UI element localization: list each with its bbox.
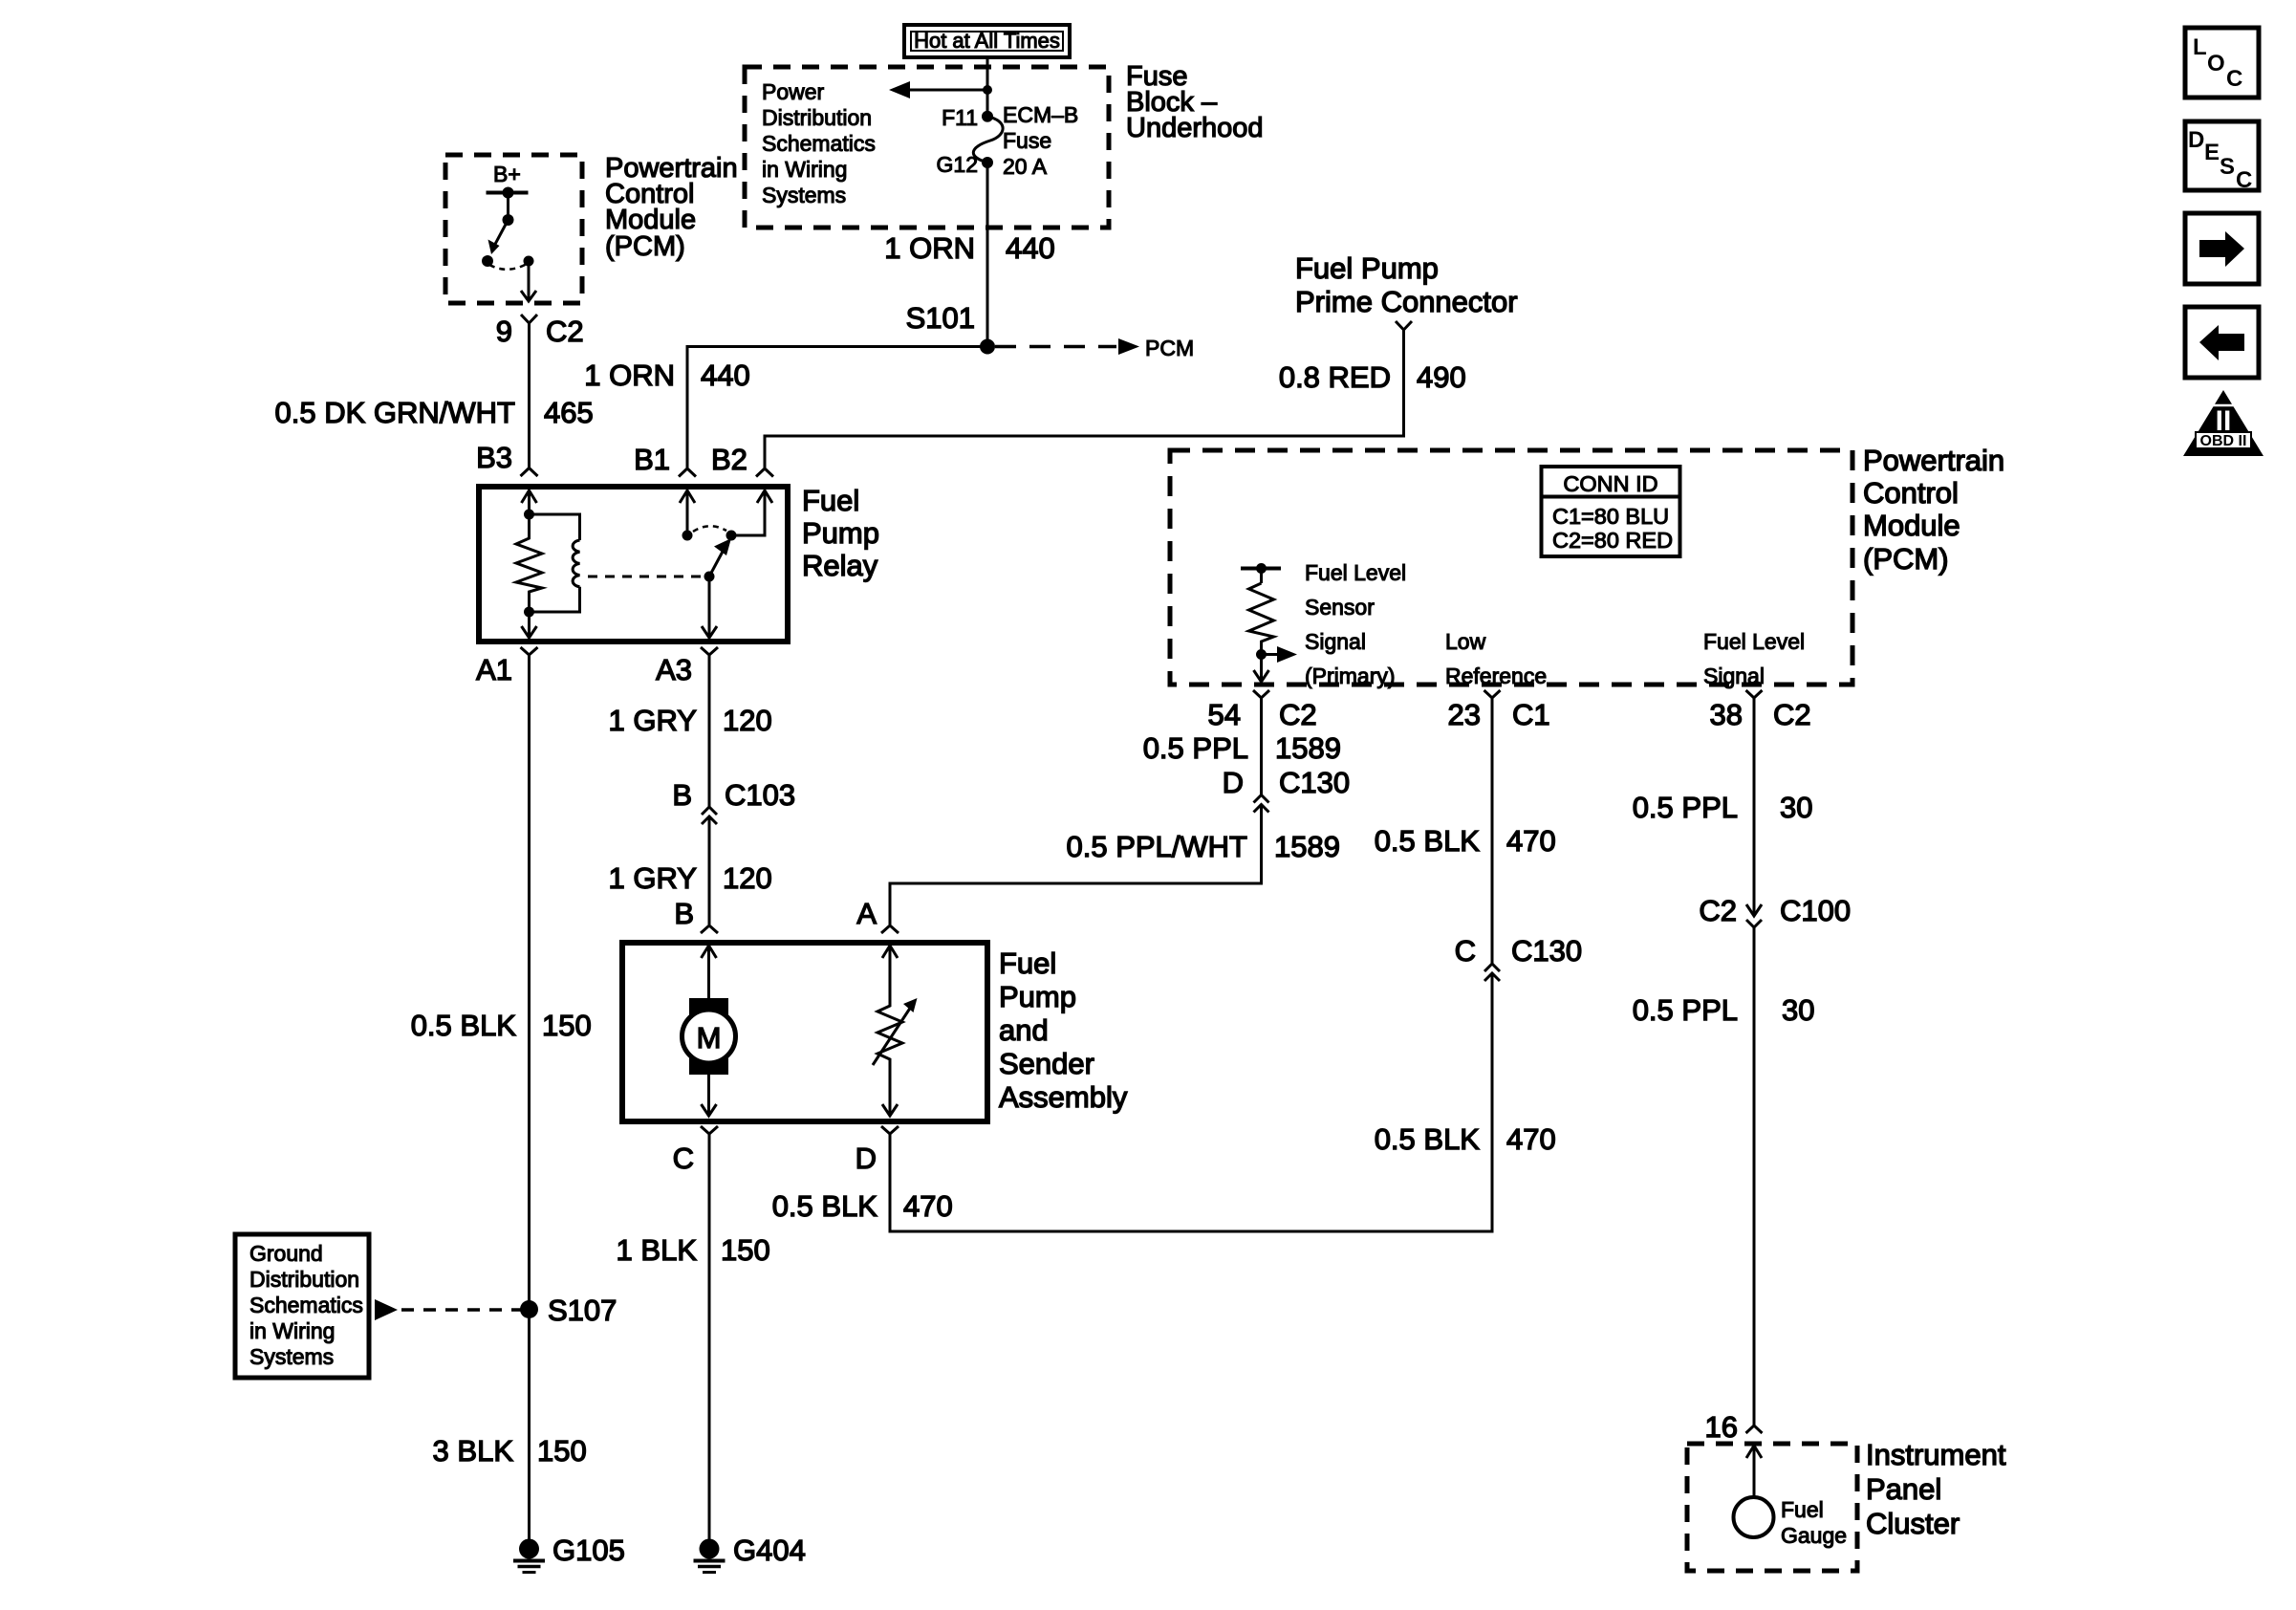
- junction dot coil top: [524, 510, 534, 520]
- label 0.5 BLK 470 (lower): [1375, 1122, 1556, 1156]
- pin label B2: [711, 443, 747, 476]
- wire 30 from PCM: [1753, 698, 1756, 915]
- junction dot coil bottom: [524, 607, 534, 618]
- Powertrain Control Module (PCM) dashed box (top-left): [445, 155, 582, 303]
- junction dot S107: [520, 1300, 538, 1318]
- svg-text:0.5 BLK: 0.5 BLK: [772, 1189, 878, 1223]
- label 1 ORN 440 (fuse branch): [884, 231, 1054, 265]
- svg-text:S107: S107: [548, 1294, 617, 1327]
- relay A3 leg with down arrow: [702, 577, 717, 638]
- pin label B (fuel pump): [674, 897, 694, 930]
- pin label A1: [476, 653, 512, 686]
- svg-text:465: 465: [544, 396, 594, 429]
- junction dot at arrow branch: [983, 85, 992, 95]
- svg-text:B: B: [674, 897, 694, 930]
- svg-text:in Wiring: in Wiring: [249, 1318, 335, 1343]
- icon LOC: [2185, 28, 2259, 98]
- wire A3 to C103: [708, 655, 711, 807]
- pin label B1: [634, 443, 670, 476]
- svg-text:(PCM): (PCM): [605, 231, 685, 262]
- wire C103 to fuel pump B: [708, 816, 711, 925]
- Ground Distribution Schematics box: [235, 1234, 369, 1378]
- arrow from ground box: [375, 1299, 398, 1320]
- svg-text:1 ORN: 1 ORN: [884, 231, 975, 265]
- dashed wire to S107: [401, 1308, 521, 1312]
- svg-text:150: 150: [721, 1233, 770, 1267]
- svg-text:0.8 RED: 0.8 RED: [1279, 360, 1391, 394]
- svg-text:0.5 BLK: 0.5 BLK: [1375, 824, 1481, 858]
- connector 54 C2 below PCM: [1208, 690, 1317, 731]
- svg-text:30: 30: [1780, 791, 1812, 824]
- svg-text:ECM–B: ECM–B: [1003, 102, 1078, 127]
- wire A1 to S107: [528, 655, 531, 1539]
- label Fuel Level Sensor Signal (Primary): [1305, 560, 1406, 688]
- icon forward arrow: [2185, 213, 2259, 284]
- wire arrow to power distribution (left arrow): [889, 81, 987, 98]
- junction dot F11: [982, 111, 993, 122]
- svg-text:D: D: [1223, 766, 1244, 799]
- svg-text:30: 30: [1782, 993, 1814, 1027]
- svg-text:Fuel Level: Fuel Level: [1305, 560, 1406, 585]
- pin label A (fuel pump sender): [856, 897, 877, 930]
- label Powertrain Control Module (PCM): [605, 153, 738, 262]
- label 0.5 PPL 1589: [1143, 731, 1341, 765]
- motor M (fuel pump): [682, 998, 736, 1075]
- label Fuel Pump and Sender Assembly: [999, 946, 1128, 1114]
- connector B2 into relay: [756, 468, 773, 477]
- svg-text:Pump: Pump: [999, 980, 1076, 1013]
- svg-text:C1: C1: [1512, 698, 1550, 731]
- wire 465 segment: [528, 323, 531, 468]
- svg-text:54: 54: [1208, 698, 1241, 731]
- ground G105: [513, 1539, 545, 1573]
- svg-text:Distribution: Distribution: [762, 105, 872, 130]
- connector B into fuel pump: [701, 925, 718, 933]
- pin label C: [673, 1142, 694, 1175]
- svg-text:Relay: Relay: [802, 549, 878, 582]
- svg-text:C100: C100: [1780, 894, 1851, 927]
- connector 9 C2 below PCM: [496, 315, 584, 348]
- svg-text:O: O: [2207, 51, 2225, 76]
- svg-text:Low: Low: [1445, 629, 1486, 654]
- connector B C103 (in-line): [672, 778, 795, 824]
- svg-text:Schematics: Schematics: [762, 131, 876, 156]
- svg-text:C2: C2: [1773, 698, 1811, 731]
- svg-text:M: M: [697, 1021, 722, 1055]
- label 1 BLK 150: [617, 1233, 770, 1267]
- Powertrain Control Module PCM dashed box (right): [1170, 450, 1852, 685]
- label 0.5 BLK 470 (below D): [772, 1189, 953, 1223]
- svg-text:3 BLK: 3 BLK: [433, 1434, 514, 1468]
- svg-text:C130: C130: [1279, 766, 1350, 799]
- svg-text:B: B: [672, 778, 692, 812]
- svg-text:A3: A3: [656, 653, 692, 686]
- svg-text:38: 38: [1710, 698, 1743, 731]
- motor lead to C with down arrow: [702, 1075, 717, 1116]
- svg-text:C: C: [2236, 167, 2252, 193]
- wire PCM output stem with down arrow: [521, 261, 536, 301]
- sender feed (arrow up): [882, 946, 898, 1002]
- wire D to C130 run: [890, 973, 1492, 1231]
- label 0.5 DK GRN/WHT 465: [275, 396, 594, 429]
- wire C130 to fuel pump A: [890, 805, 1262, 925]
- Hot at All Times box: [904, 25, 1070, 57]
- pin label B3: [476, 441, 512, 474]
- svg-text:Fuel Level: Fuel Level: [1703, 629, 1805, 654]
- svg-text:0.5 PPL: 0.5 PPL: [1143, 731, 1248, 765]
- svg-text:Control: Control: [1863, 476, 1959, 510]
- svg-text:470: 470: [1506, 1122, 1556, 1156]
- svg-text:(Primary): (Primary): [1305, 664, 1396, 688]
- svg-text:Panel: Panel: [1866, 1472, 1941, 1506]
- label Power Distribution Schematics in Wiring Systems: [762, 79, 876, 207]
- svg-text:B1: B1: [634, 443, 670, 476]
- svg-text:Assembly: Assembly: [999, 1080, 1128, 1114]
- svg-text:C: C: [2226, 66, 2242, 92]
- svg-text:Cluster: Cluster: [1866, 1507, 1960, 1540]
- wire C to G404: [708, 1134, 711, 1539]
- svg-text:0.5 PPL: 0.5 PPL: [1633, 791, 1738, 824]
- fuse ECM-B (S-curve element): [973, 117, 1003, 163]
- relay B1 common terminal (arrow up): [680, 490, 695, 535]
- svg-text:0.5 PPL: 0.5 PPL: [1633, 993, 1738, 1027]
- svg-text:470: 470: [1506, 824, 1556, 858]
- svg-text:0.5 BLK: 0.5 BLK: [411, 1009, 517, 1042]
- fuel level sensor signal pull-up (internal): [1241, 563, 1297, 682]
- connector Fuel Pump Prime (Y terminal): [1396, 321, 1412, 330]
- svg-text:Fuel: Fuel: [1781, 1497, 1824, 1522]
- svg-text:B+: B+: [493, 162, 521, 186]
- label Ground Distribution Schematics in Wiring Systems: [249, 1241, 363, 1369]
- label 1 GRY 120 (upper): [609, 704, 772, 737]
- pin label D: [856, 1142, 877, 1175]
- wire S101 branch to B1 corner: [687, 347, 987, 468]
- svg-text:G404: G404: [733, 1534, 806, 1567]
- junction dot G12: [982, 157, 993, 168]
- connector 23 C1 below PCM: [1448, 690, 1550, 731]
- svg-text:1 ORN: 1 ORN: [584, 359, 675, 392]
- svg-text:490: 490: [1417, 360, 1466, 394]
- svg-text:Signal: Signal: [1305, 629, 1366, 654]
- label 0.5 BLK 150: [411, 1009, 592, 1042]
- svg-text:1 BLK: 1 BLK: [617, 1233, 698, 1267]
- fuel pump motor terminal B (arrow up): [702, 946, 717, 1000]
- icon DESC: [2185, 121, 2259, 193]
- svg-text:Sensor: Sensor: [1305, 595, 1375, 620]
- pin label G12: [937, 152, 978, 177]
- svg-text:1589: 1589: [1274, 830, 1340, 863]
- label 0.8 RED 490: [1279, 360, 1466, 394]
- label ECM-B Fuse 20 A: [1003, 102, 1078, 179]
- svg-text:D: D: [2188, 127, 2204, 153]
- label Fuel Pump Prime Connector: [1295, 251, 1518, 318]
- connector D C130 (in-line): [1223, 766, 1351, 813]
- connector 16 into cluster: [1705, 1410, 1763, 1444]
- svg-text:Systems: Systems: [762, 183, 846, 207]
- svg-text:440: 440: [701, 359, 750, 392]
- svg-text:G105: G105: [552, 1534, 625, 1567]
- connector B3 into relay: [521, 468, 538, 477]
- label G105: [552, 1534, 625, 1567]
- svg-text:S101: S101: [906, 301, 975, 335]
- pin label A3: [656, 653, 692, 686]
- connector B1 into relay: [679, 468, 696, 477]
- label 0.5 BLK 470 (upper): [1375, 824, 1556, 858]
- relay movable contact arm with arrowhead: [709, 538, 731, 577]
- connector 38 C2 below PCM: [1710, 690, 1811, 731]
- svg-text:CONN ID: CONN ID: [1563, 471, 1657, 496]
- svg-text:Ground: Ground: [249, 1241, 323, 1266]
- svg-text:Sender: Sender: [999, 1047, 1094, 1080]
- junction dot relay NO contact: [726, 531, 737, 541]
- svg-text:Gauge: Gauge: [1781, 1523, 1847, 1548]
- svg-text:150: 150: [542, 1009, 592, 1042]
- label Fuel Level Signal: [1703, 629, 1805, 688]
- junction dot B+: [503, 187, 514, 199]
- node B+ label: [493, 162, 521, 186]
- svg-text:Distribution: Distribution: [249, 1267, 359, 1292]
- icon back arrow: [2185, 307, 2259, 378]
- wire 470 from PCM: [1491, 698, 1494, 964]
- connector A into fuel pump: [881, 925, 899, 933]
- label Fuse Block - Underhood: [1126, 61, 1264, 143]
- svg-text:1 GRY: 1 GRY: [609, 704, 697, 737]
- Fuse Block Underhood dashed box: [745, 67, 1109, 228]
- connector D below fuel pump: [881, 1126, 899, 1134]
- svg-text:and: and: [999, 1013, 1049, 1047]
- dashed relay contact arc: [693, 526, 726, 532]
- svg-text:B2: B2: [711, 443, 747, 476]
- label 0.5 PPL 30 (upper): [1633, 791, 1813, 824]
- connector C2 C100 (pass-through down): [1699, 894, 1851, 927]
- pin label F11: [942, 105, 978, 130]
- svg-text:Fuel Pump: Fuel Pump: [1295, 251, 1439, 285]
- label Fuel Pump Relay: [802, 484, 879, 582]
- svg-text:Reference: Reference: [1445, 664, 1547, 688]
- svg-text:120: 120: [723, 704, 772, 737]
- Fuel Pump Relay box: [479, 487, 788, 642]
- svg-text:16: 16: [1705, 1410, 1738, 1444]
- ground G404: [694, 1539, 726, 1573]
- svg-text:120: 120: [723, 861, 772, 895]
- svg-text:Pump: Pump: [802, 516, 879, 550]
- connector A3 below relay: [701, 647, 718, 655]
- svg-text:D: D: [856, 1142, 877, 1175]
- Fuel Pump and Sender Assembly box: [622, 943, 987, 1121]
- svg-text:A: A: [856, 897, 877, 930]
- svg-text:Systems: Systems: [249, 1344, 334, 1369]
- relay coil feed terminal (B3 arrow up): [522, 490, 537, 514]
- sender lead to D with down arrow: [882, 1063, 898, 1116]
- Instrument Panel Cluster dashed box: [1687, 1444, 1857, 1571]
- svg-text:G12: G12: [937, 152, 978, 177]
- fuel level sender variable resistor: [873, 998, 918, 1065]
- svg-text:Instrument: Instrument: [1866, 1438, 2006, 1471]
- wire to F11: [986, 90, 989, 116]
- junction dot relay armature: [704, 572, 715, 582]
- wire 0.8 RED 490: [765, 330, 1404, 468]
- svg-text:Schematics: Schematics: [249, 1293, 363, 1317]
- label Instrument Panel Cluster: [1866, 1438, 2006, 1540]
- connector A1 below relay: [521, 647, 538, 655]
- svg-text:L: L: [2193, 34, 2207, 60]
- svg-text:0.5 DK GRN/WHT: 0.5 DK GRN/WHT: [275, 396, 516, 429]
- connector C C130 (in-line): [1455, 934, 1583, 981]
- svg-text:0.5 PPL/WHT: 0.5 PPL/WHT: [1067, 830, 1248, 863]
- svg-text:C2: C2: [1699, 894, 1737, 927]
- label 1 GRY 120 (lower): [609, 861, 772, 895]
- wire NO contact to B2 terminal: [731, 490, 772, 535]
- svg-text:C2=80 RED: C2=80 RED: [1552, 528, 1673, 553]
- label Low Reference: [1445, 629, 1547, 688]
- svg-text:B3: B3: [476, 441, 512, 474]
- svg-text:S: S: [2220, 154, 2235, 180]
- junction dot switch pivot: [503, 214, 514, 226]
- relay coil winding: [530, 514, 580, 612]
- svg-text:20 A: 20 A: [1003, 154, 1048, 179]
- dashed wire S101 to PCM: [995, 345, 1116, 349]
- svg-text:C: C: [673, 1142, 694, 1175]
- wire 30 to instrument cluster: [1753, 927, 1756, 1425]
- label Powertrain Control Module (PCM) right: [1863, 444, 2004, 576]
- svg-text:440: 440: [1006, 231, 1055, 265]
- svg-text:A1: A1: [476, 653, 512, 686]
- resistor (relay suppression): [516, 514, 542, 612]
- dashed mechanical linkage: [588, 576, 704, 578]
- svg-text:E: E: [2204, 140, 2220, 165]
- label 1 ORN 440 (relay branch): [584, 359, 749, 392]
- B+ feed bar: [487, 191, 529, 195]
- svg-text:in Wiring: in Wiring: [762, 157, 847, 182]
- label Fuel Gauge: [1781, 1497, 1847, 1548]
- CONN ID table: [1542, 467, 1680, 556]
- junction dot relay common: [682, 531, 693, 541]
- svg-text:Prime Connector: Prime Connector: [1295, 285, 1518, 318]
- svg-text:23: 23: [1448, 698, 1481, 731]
- svg-text:C1=80 BLU: C1=80 BLU: [1552, 504, 1669, 529]
- svg-text:470: 470: [903, 1189, 953, 1223]
- svg-text:C2: C2: [546, 315, 584, 348]
- switch arm with arrowhead (PCM internal fuel pump relay driver): [488, 220, 509, 254]
- icon OBD II triangle: [2183, 390, 2264, 456]
- svg-text:(PCM): (PCM): [1863, 542, 1949, 576]
- svg-text:150: 150: [537, 1434, 587, 1468]
- label G404: [733, 1534, 806, 1567]
- svg-text:C103: C103: [725, 778, 795, 812]
- connector C below fuel pump: [701, 1126, 718, 1134]
- fuel gauge: [1734, 1497, 1774, 1537]
- svg-text:PCM: PCM: [1145, 336, 1194, 360]
- svg-text:C: C: [1455, 934, 1476, 968]
- dashed switch arc: [489, 264, 527, 270]
- wire 1589 from PCM: [1260, 698, 1263, 794]
- svg-text:C130: C130: [1511, 934, 1582, 968]
- wire from Hot at All Times into fuse block: [986, 57, 989, 90]
- svg-text:Powertrain: Powertrain: [1863, 444, 2004, 477]
- junction dot switch throw right: [524, 256, 534, 267]
- svg-text:1589: 1589: [1275, 731, 1341, 765]
- svg-text:Module: Module: [1863, 509, 1960, 542]
- label S107: [548, 1294, 617, 1327]
- svg-text:Fuel: Fuel: [999, 946, 1056, 980]
- label 0.5 PPL/WHT 1589: [1067, 830, 1340, 863]
- svg-text:OBD II: OBD II: [2200, 433, 2247, 449]
- label 0.5 PPL 30 (lower): [1633, 993, 1815, 1027]
- svg-text:Fuel: Fuel: [802, 484, 859, 517]
- label 3 BLK 150: [433, 1434, 587, 1468]
- arrow to PCM: [1118, 338, 1139, 355]
- label S101: [906, 301, 975, 335]
- wire 440 from fuse to S101: [986, 163, 989, 347]
- svg-text:Underhood: Underhood: [1126, 113, 1264, 143]
- relay A1 leg with down arrow: [522, 612, 537, 638]
- svg-text:Fuse: Fuse: [1003, 128, 1051, 153]
- svg-text:F11: F11: [942, 105, 978, 130]
- svg-text:1 GRY: 1 GRY: [609, 861, 697, 895]
- fuel gauge feed (arrow up): [1746, 1446, 1762, 1497]
- junction dot S101: [980, 339, 995, 355]
- svg-text:0.5 BLK: 0.5 BLK: [1375, 1122, 1481, 1156]
- wire B+ stem: [507, 193, 509, 221]
- svg-text:Signal: Signal: [1703, 664, 1765, 688]
- junction dot switch throw left: [482, 255, 493, 267]
- svg-text:9: 9: [496, 315, 512, 348]
- label PCM: [1145, 336, 1194, 360]
- svg-text:C2: C2: [1279, 698, 1317, 731]
- svg-text:Hot at All Times: Hot at All Times: [914, 29, 1060, 53]
- svg-text:Power: Power: [762, 79, 825, 104]
